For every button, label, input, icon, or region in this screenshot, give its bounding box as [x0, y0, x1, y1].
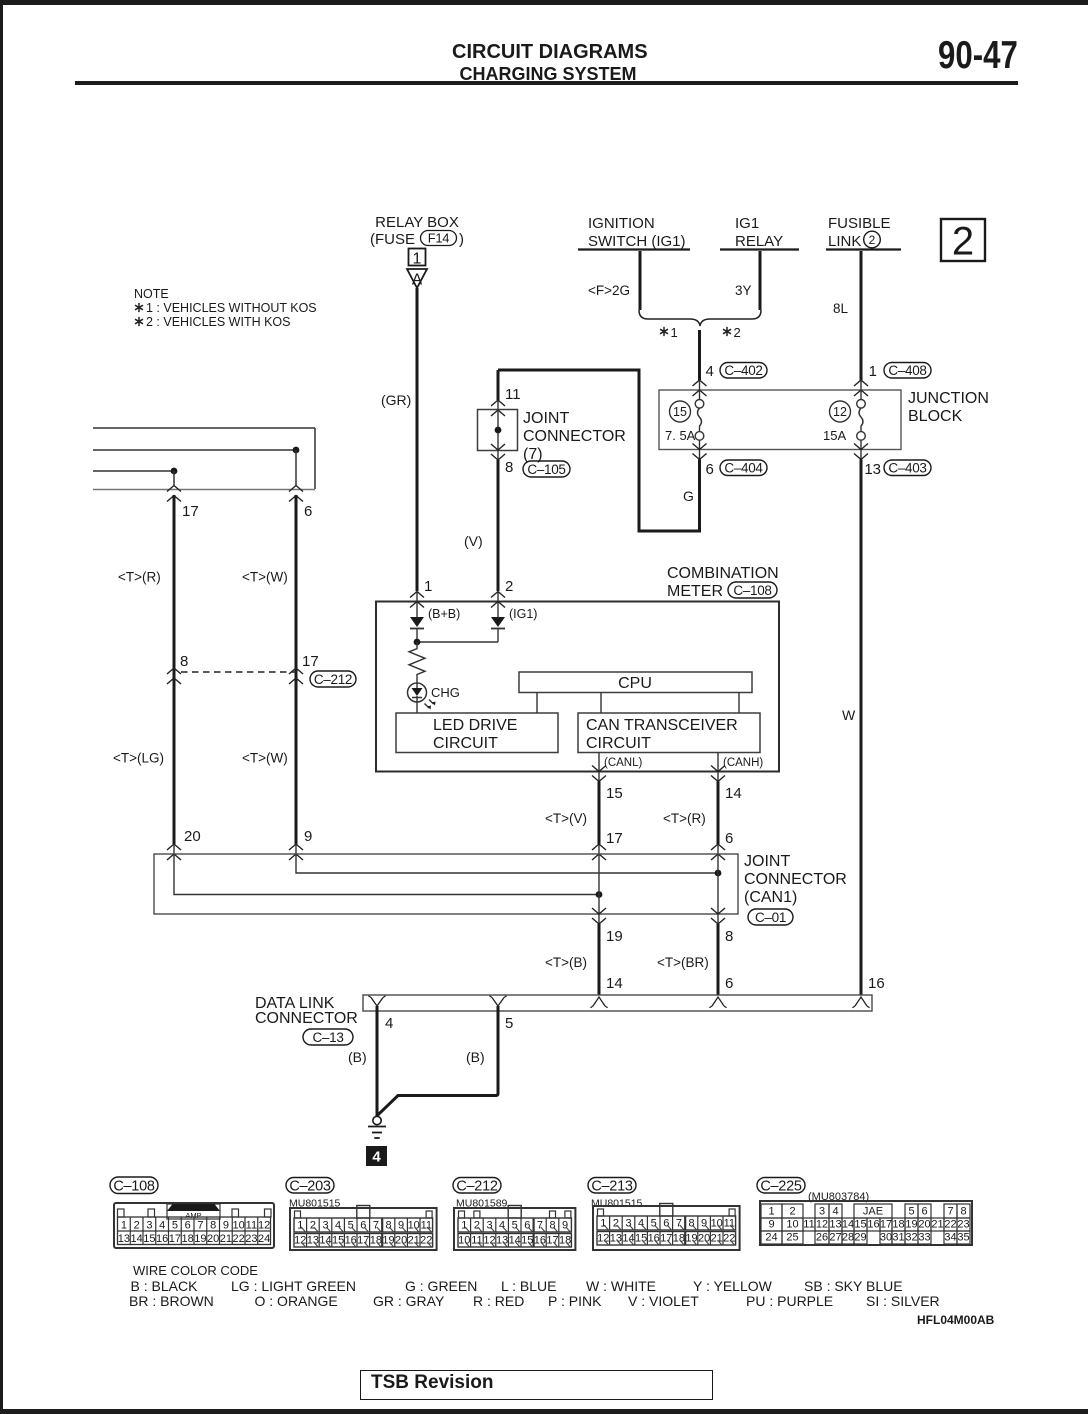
svg-text:14: 14	[509, 1235, 521, 1247]
svg-text:2: 2	[613, 1218, 619, 1230]
svg-text:4: 4	[372, 1149, 381, 1166]
svg-text:JUNCTION: JUNCTION	[908, 390, 989, 407]
svg-text:21: 21	[711, 1233, 723, 1245]
svg-text:9: 9	[562, 1220, 568, 1232]
svg-text:3: 3	[819, 1206, 825, 1218]
svg-text:2: 2	[869, 233, 876, 247]
svg-text:1: 1	[121, 1220, 127, 1232]
svg-text:18: 18	[370, 1235, 382, 1247]
svg-text:7: 7	[676, 1218, 682, 1230]
svg-text:3Y: 3Y	[735, 283, 752, 298]
svg-text:C–213: C–213	[591, 1178, 632, 1194]
svg-text:17: 17	[606, 830, 623, 847]
svg-text:F14: F14	[428, 231, 450, 246]
svg-text:10: 10	[711, 1218, 723, 1230]
svg-text:(IG1): (IG1)	[509, 607, 537, 621]
svg-text:3: 3	[322, 1220, 328, 1232]
svg-text:C–403: C–403	[888, 461, 926, 476]
svg-text:CONNECTOR: CONNECTOR	[523, 428, 626, 445]
svg-text:LINK: LINK	[828, 233, 861, 250]
svg-text:1: 1	[461, 1220, 467, 1232]
svg-text:6: 6	[725, 975, 733, 992]
svg-text:4: 4	[159, 1220, 165, 1232]
svg-text:6: 6	[663, 1218, 669, 1230]
svg-text:1: 1	[768, 1206, 774, 1218]
svg-text:IGNITION: IGNITION	[588, 215, 655, 232]
svg-text:2: 2	[734, 325, 741, 340]
svg-text:16: 16	[534, 1235, 546, 1247]
svg-text:4: 4	[335, 1220, 341, 1232]
svg-text:C–108: C–108	[733, 583, 771, 598]
svg-text:8: 8	[505, 459, 513, 476]
svg-text:8: 8	[210, 1220, 216, 1232]
svg-text:22: 22	[723, 1233, 735, 1245]
svg-text:C–13: C–13	[312, 1030, 343, 1045]
svg-text:2: 2	[952, 220, 974, 264]
svg-text:FUSIBLE: FUSIBLE	[828, 215, 891, 232]
svg-text:6: 6	[304, 503, 312, 520]
svg-text:15: 15	[521, 1235, 533, 1247]
svg-text:9: 9	[223, 1220, 229, 1232]
svg-text:4: 4	[638, 1218, 644, 1230]
svg-text:14: 14	[319, 1235, 331, 1247]
svg-text:<T>(BR): <T>(BR)	[657, 955, 709, 970]
svg-text:35: 35	[957, 1232, 969, 1244]
svg-text:18: 18	[559, 1235, 571, 1247]
svg-text:6: 6	[360, 1220, 366, 1232]
svg-text:CONNECTOR: CONNECTOR	[255, 1010, 358, 1027]
svg-text:C–225: C–225	[760, 1178, 801, 1194]
svg-text:13: 13	[496, 1235, 508, 1247]
svg-text:CAN TRANSCEIVER: CAN TRANSCEIVER	[586, 717, 738, 734]
svg-text:4: 4	[706, 363, 714, 380]
svg-text:): )	[459, 231, 464, 248]
svg-text:16: 16	[867, 1219, 879, 1231]
svg-text:8: 8	[385, 1220, 391, 1232]
svg-text:(CAN1): (CAN1)	[744, 889, 797, 906]
svg-text:16: 16	[156, 1233, 168, 1245]
svg-text:14: 14	[842, 1219, 854, 1231]
svg-text:<F>2G: <F>2G	[588, 283, 630, 298]
svg-text:18: 18	[673, 1233, 685, 1245]
svg-text:19: 19	[905, 1219, 917, 1231]
svg-text:<T>(W): <T>(W)	[242, 570, 288, 585]
svg-text:2: 2	[134, 1220, 140, 1232]
svg-text:8: 8	[960, 1206, 966, 1218]
svg-text:27: 27	[829, 1232, 841, 1244]
svg-text:17: 17	[357, 1235, 369, 1247]
svg-text:7: 7	[947, 1206, 953, 1218]
svg-text:MU801515: MU801515	[591, 1198, 643, 1210]
svg-text:C–404: C–404	[724, 461, 763, 476]
svg-text:11: 11	[246, 1220, 257, 1232]
svg-text:6: 6	[921, 1206, 927, 1218]
svg-text:12: 12	[258, 1220, 270, 1232]
svg-text:A: A	[412, 272, 423, 289]
svg-text:(B+B): (B+B)	[428, 607, 460, 621]
svg-text:9: 9	[768, 1219, 774, 1231]
svg-text:1: 1	[671, 325, 678, 340]
svg-text:13: 13	[118, 1233, 130, 1245]
svg-text:17: 17	[880, 1219, 892, 1231]
svg-text:<T>(R): <T>(R)	[663, 811, 706, 826]
svg-text:15: 15	[673, 405, 687, 419]
svg-text:CPU: CPU	[618, 675, 652, 692]
svg-text:5: 5	[908, 1206, 914, 1218]
svg-text:(V): (V)	[464, 533, 483, 549]
svg-text:7: 7	[373, 1220, 379, 1232]
svg-text:<T>(R): <T>(R)	[118, 570, 161, 585]
svg-text:14: 14	[725, 785, 742, 802]
svg-text:5: 5	[348, 1220, 354, 1232]
svg-text:4: 4	[832, 1206, 838, 1218]
svg-text:29: 29	[854, 1232, 866, 1244]
svg-text:7: 7	[197, 1220, 203, 1232]
svg-text:6: 6	[524, 1220, 530, 1232]
svg-text:<T>(LG): <T>(LG)	[113, 751, 164, 766]
svg-text:15: 15	[143, 1233, 155, 1245]
svg-text:C–212: C–212	[456, 1178, 497, 1194]
svg-text:C–01: C–01	[755, 910, 786, 925]
svg-text:(CANH): (CANH)	[723, 757, 763, 769]
svg-text:12: 12	[816, 1219, 828, 1231]
svg-text:(GR): (GR)	[381, 392, 411, 408]
svg-text:13: 13	[864, 461, 881, 478]
svg-text:NOTE: NOTE	[134, 287, 169, 301]
svg-text:16: 16	[868, 975, 885, 992]
svg-text:19: 19	[606, 928, 623, 945]
svg-text:CHG: CHG	[431, 685, 460, 700]
svg-text:30: 30	[880, 1232, 892, 1244]
svg-text:15: 15	[332, 1235, 344, 1247]
svg-text:(CANL): (CANL)	[604, 757, 643, 769]
svg-text:7. 5A: 7. 5A	[665, 428, 696, 443]
svg-text:8L: 8L	[833, 301, 849, 316]
svg-text:C–402: C–402	[724, 363, 762, 378]
svg-text:31: 31	[892, 1232, 904, 1244]
svg-text:21: 21	[408, 1235, 420, 1247]
svg-text:4: 4	[499, 1220, 505, 1232]
svg-text:LED DRIVE: LED DRIVE	[433, 717, 517, 734]
svg-text:11: 11	[421, 1220, 432, 1232]
svg-text:19: 19	[382, 1235, 394, 1247]
svg-text:1 : VEHICLES WITHOUT KOS: 1 : VEHICLES WITHOUT KOS	[146, 301, 317, 315]
svg-text:19: 19	[685, 1233, 697, 1245]
svg-text:17: 17	[182, 503, 199, 520]
svg-text:BLOCK: BLOCK	[908, 408, 963, 425]
svg-text:11: 11	[803, 1219, 814, 1231]
svg-text:21: 21	[220, 1233, 232, 1245]
svg-text:1: 1	[869, 363, 877, 380]
svg-text:1: 1	[424, 578, 432, 595]
svg-text:<T>(V): <T>(V)	[545, 811, 587, 826]
svg-text:33: 33	[918, 1232, 930, 1244]
svg-text:11: 11	[505, 386, 521, 403]
svg-text:12: 12	[294, 1235, 306, 1247]
svg-text:20: 20	[184, 828, 201, 845]
svg-text:15: 15	[606, 785, 623, 802]
svg-text:9: 9	[701, 1218, 707, 1230]
svg-text:4: 4	[385, 1015, 393, 1032]
svg-text:14: 14	[622, 1233, 634, 1245]
svg-text:12: 12	[597, 1233, 609, 1245]
svg-text:13: 13	[307, 1235, 319, 1247]
svg-text:9: 9	[304, 828, 312, 845]
svg-text:25: 25	[786, 1232, 798, 1244]
svg-text:C–203: C–203	[289, 1178, 330, 1194]
svg-text:34: 34	[944, 1232, 956, 1244]
svg-text:2: 2	[310, 1220, 316, 1232]
svg-text:10: 10	[233, 1220, 245, 1232]
svg-text:CONNECTOR: CONNECTOR	[744, 871, 847, 888]
svg-text:1: 1	[600, 1218, 606, 1230]
svg-text:9: 9	[398, 1220, 404, 1232]
svg-text:22: 22	[233, 1233, 245, 1245]
svg-text:3: 3	[486, 1220, 492, 1232]
svg-text:1: 1	[413, 251, 422, 268]
svg-text:10: 10	[408, 1220, 420, 1232]
svg-text:12: 12	[483, 1235, 495, 1247]
svg-text:20: 20	[207, 1233, 219, 1245]
svg-text:6: 6	[706, 461, 714, 478]
svg-text:3: 3	[146, 1220, 152, 1232]
svg-text:12: 12	[833, 405, 847, 419]
svg-text:15: 15	[635, 1233, 647, 1245]
svg-text:5: 5	[651, 1218, 657, 1230]
svg-text:<T>(W): <T>(W)	[242, 751, 288, 766]
svg-text:(FUSE: (FUSE	[370, 231, 415, 248]
svg-text:3: 3	[625, 1218, 631, 1230]
svg-text:2: 2	[474, 1220, 480, 1232]
svg-text:28: 28	[842, 1232, 854, 1244]
svg-text:17: 17	[302, 653, 319, 670]
svg-text:6: 6	[185, 1220, 191, 1232]
svg-text:15A: 15A	[823, 428, 846, 443]
svg-text:5: 5	[172, 1220, 178, 1232]
svg-text:22: 22	[944, 1219, 956, 1231]
svg-text:20: 20	[698, 1233, 710, 1245]
svg-text:14: 14	[131, 1233, 143, 1245]
svg-text:6: 6	[725, 830, 733, 847]
svg-text:10: 10	[458, 1235, 470, 1247]
svg-text:2: 2	[505, 578, 513, 595]
svg-text:18: 18	[892, 1219, 904, 1231]
svg-text:13: 13	[610, 1233, 622, 1245]
svg-text:19: 19	[194, 1233, 206, 1245]
svg-text:21: 21	[931, 1219, 943, 1231]
svg-text:11: 11	[471, 1235, 482, 1247]
svg-text:(B): (B)	[348, 1049, 367, 1065]
svg-text:JAE: JAE	[863, 1206, 883, 1218]
svg-text:(B): (B)	[466, 1049, 485, 1065]
svg-text:16: 16	[648, 1233, 660, 1245]
svg-text:2: 2	[789, 1206, 795, 1218]
svg-text:CIRCUIT: CIRCUIT	[433, 735, 498, 752]
svg-text:2 : VEHICLES WITH KOS: 2 : VEHICLES WITH KOS	[146, 315, 290, 329]
svg-text:7: 7	[537, 1220, 543, 1232]
svg-text:22: 22	[420, 1235, 432, 1247]
svg-text:5: 5	[505, 1015, 513, 1032]
svg-text:C–105: C–105	[527, 462, 565, 477]
svg-text:15: 15	[854, 1219, 866, 1231]
svg-text:SWITCH (IG1): SWITCH (IG1)	[588, 233, 686, 250]
svg-text:G: G	[683, 488, 694, 504]
svg-text:18: 18	[182, 1233, 194, 1245]
svg-text:32: 32	[905, 1232, 917, 1244]
svg-text:8: 8	[549, 1220, 555, 1232]
svg-text:JOINT: JOINT	[744, 853, 790, 870]
svg-text:26: 26	[816, 1232, 828, 1244]
svg-text:8: 8	[725, 928, 733, 945]
svg-text:RELAY: RELAY	[735, 233, 783, 250]
svg-text:8: 8	[688, 1218, 694, 1230]
svg-text:11: 11	[724, 1218, 735, 1230]
svg-text:JOINT: JOINT	[523, 410, 569, 427]
svg-text:24: 24	[765, 1232, 777, 1244]
svg-text:17: 17	[660, 1233, 672, 1245]
svg-text:COMBINATION: COMBINATION	[667, 565, 779, 582]
svg-text:<T>(B): <T>(B)	[545, 955, 587, 970]
svg-text:17: 17	[169, 1233, 181, 1245]
svg-text:16: 16	[345, 1235, 357, 1247]
svg-text:8: 8	[180, 653, 188, 670]
svg-text:13: 13	[829, 1219, 841, 1231]
svg-text:CIRCUIT: CIRCUIT	[586, 735, 651, 752]
svg-text:14: 14	[606, 975, 623, 992]
svg-text:1: 1	[297, 1220, 303, 1232]
svg-text:5: 5	[512, 1220, 518, 1232]
svg-text:23: 23	[957, 1219, 969, 1231]
svg-text:RELAY BOX: RELAY BOX	[375, 214, 459, 231]
svg-text:C–108: C–108	[113, 1178, 154, 1194]
svg-text:17: 17	[546, 1235, 558, 1247]
svg-text:20: 20	[918, 1219, 930, 1231]
svg-text:METER: METER	[667, 583, 723, 600]
svg-text:IG1: IG1	[735, 215, 759, 232]
svg-text:20: 20	[395, 1235, 407, 1247]
svg-text:C–408: C–408	[888, 363, 926, 378]
svg-text:W: W	[842, 707, 856, 723]
svg-text:C–212: C–212	[314, 672, 352, 687]
svg-text:24: 24	[258, 1233, 270, 1245]
svg-text:23: 23	[245, 1233, 257, 1245]
svg-text:10: 10	[786, 1219, 798, 1231]
